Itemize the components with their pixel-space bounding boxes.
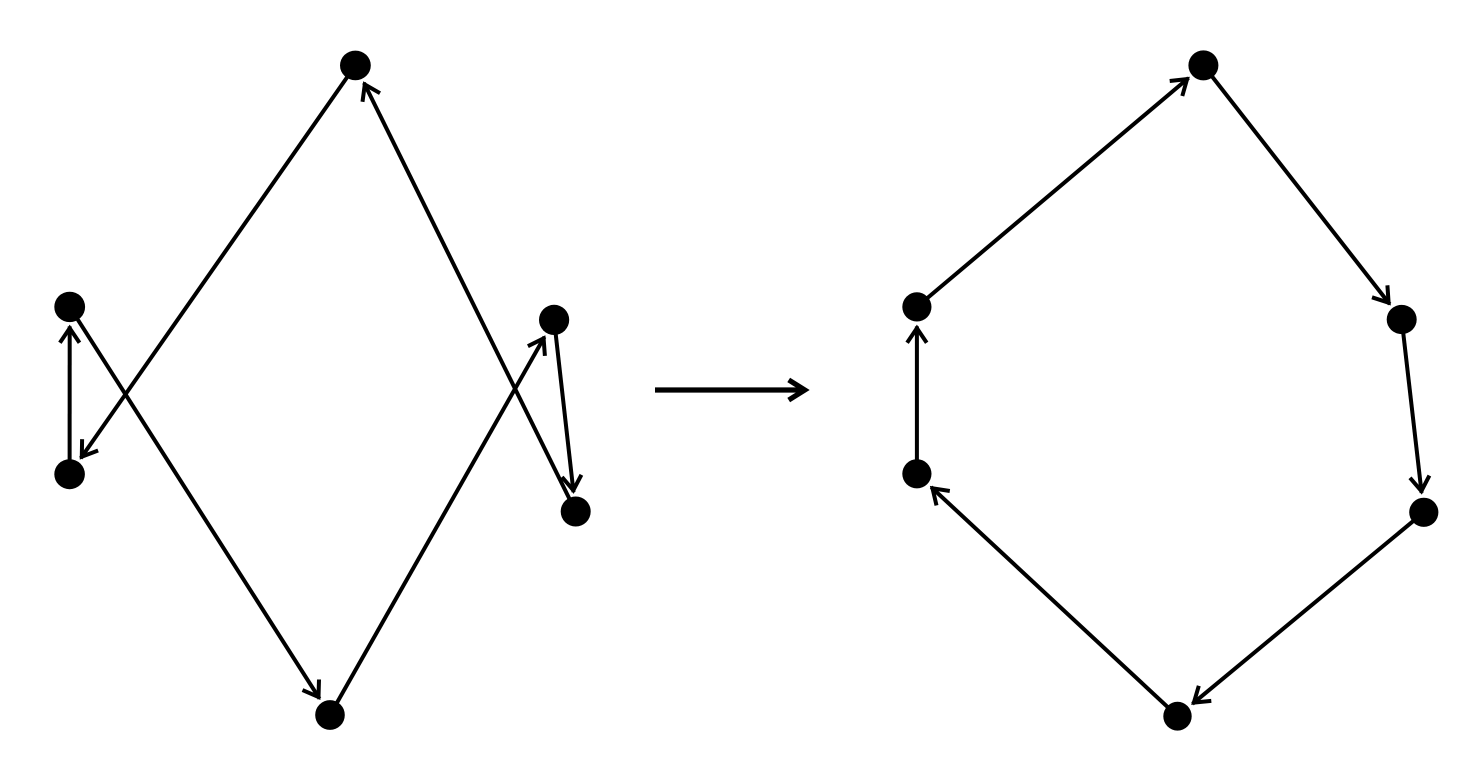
wire left edge LR to T (arrow up-left) [363, 83, 576, 512]
node right B [1163, 702, 1191, 731]
wire left edge T to LL (arrow down-left) [81, 65, 356, 458]
wire right edge LR to B (arrow down-left) [1193, 512, 1424, 704]
node right LR [1409, 498, 1438, 527]
node left LR [561, 497, 591, 527]
wire right edge UL to T (arrow up-right) [917, 78, 1189, 307]
wire left edge UL to B (arrow down-right) [70, 307, 320, 699]
node right T [1188, 50, 1218, 80]
node left UR [539, 305, 569, 335]
wire right edge LL to UL (arrow up) [907, 326, 927, 473]
node left UL [54, 292, 85, 322]
wire right edge B to LL (arrow up-left) [931, 487, 1177, 716]
transformation arrow between graphs [655, 380, 805, 400]
node left T [340, 51, 371, 81]
node right LL [902, 459, 931, 488]
node right UL [902, 292, 931, 321]
wire right edge T to UR (arrow down-right) [1203, 65, 1389, 304]
node right UR [1387, 305, 1417, 334]
node left B [315, 700, 345, 730]
wire left edge B to UR (arrow up-right) [330, 337, 545, 715]
wire left edge LL to UL (arrow up) [60, 326, 80, 474]
wire left edge UR to LR (arrow down) [554, 320, 581, 492]
wire right edge UR to LR (arrow down) [1402, 320, 1430, 493]
node left LL [54, 459, 85, 489]
